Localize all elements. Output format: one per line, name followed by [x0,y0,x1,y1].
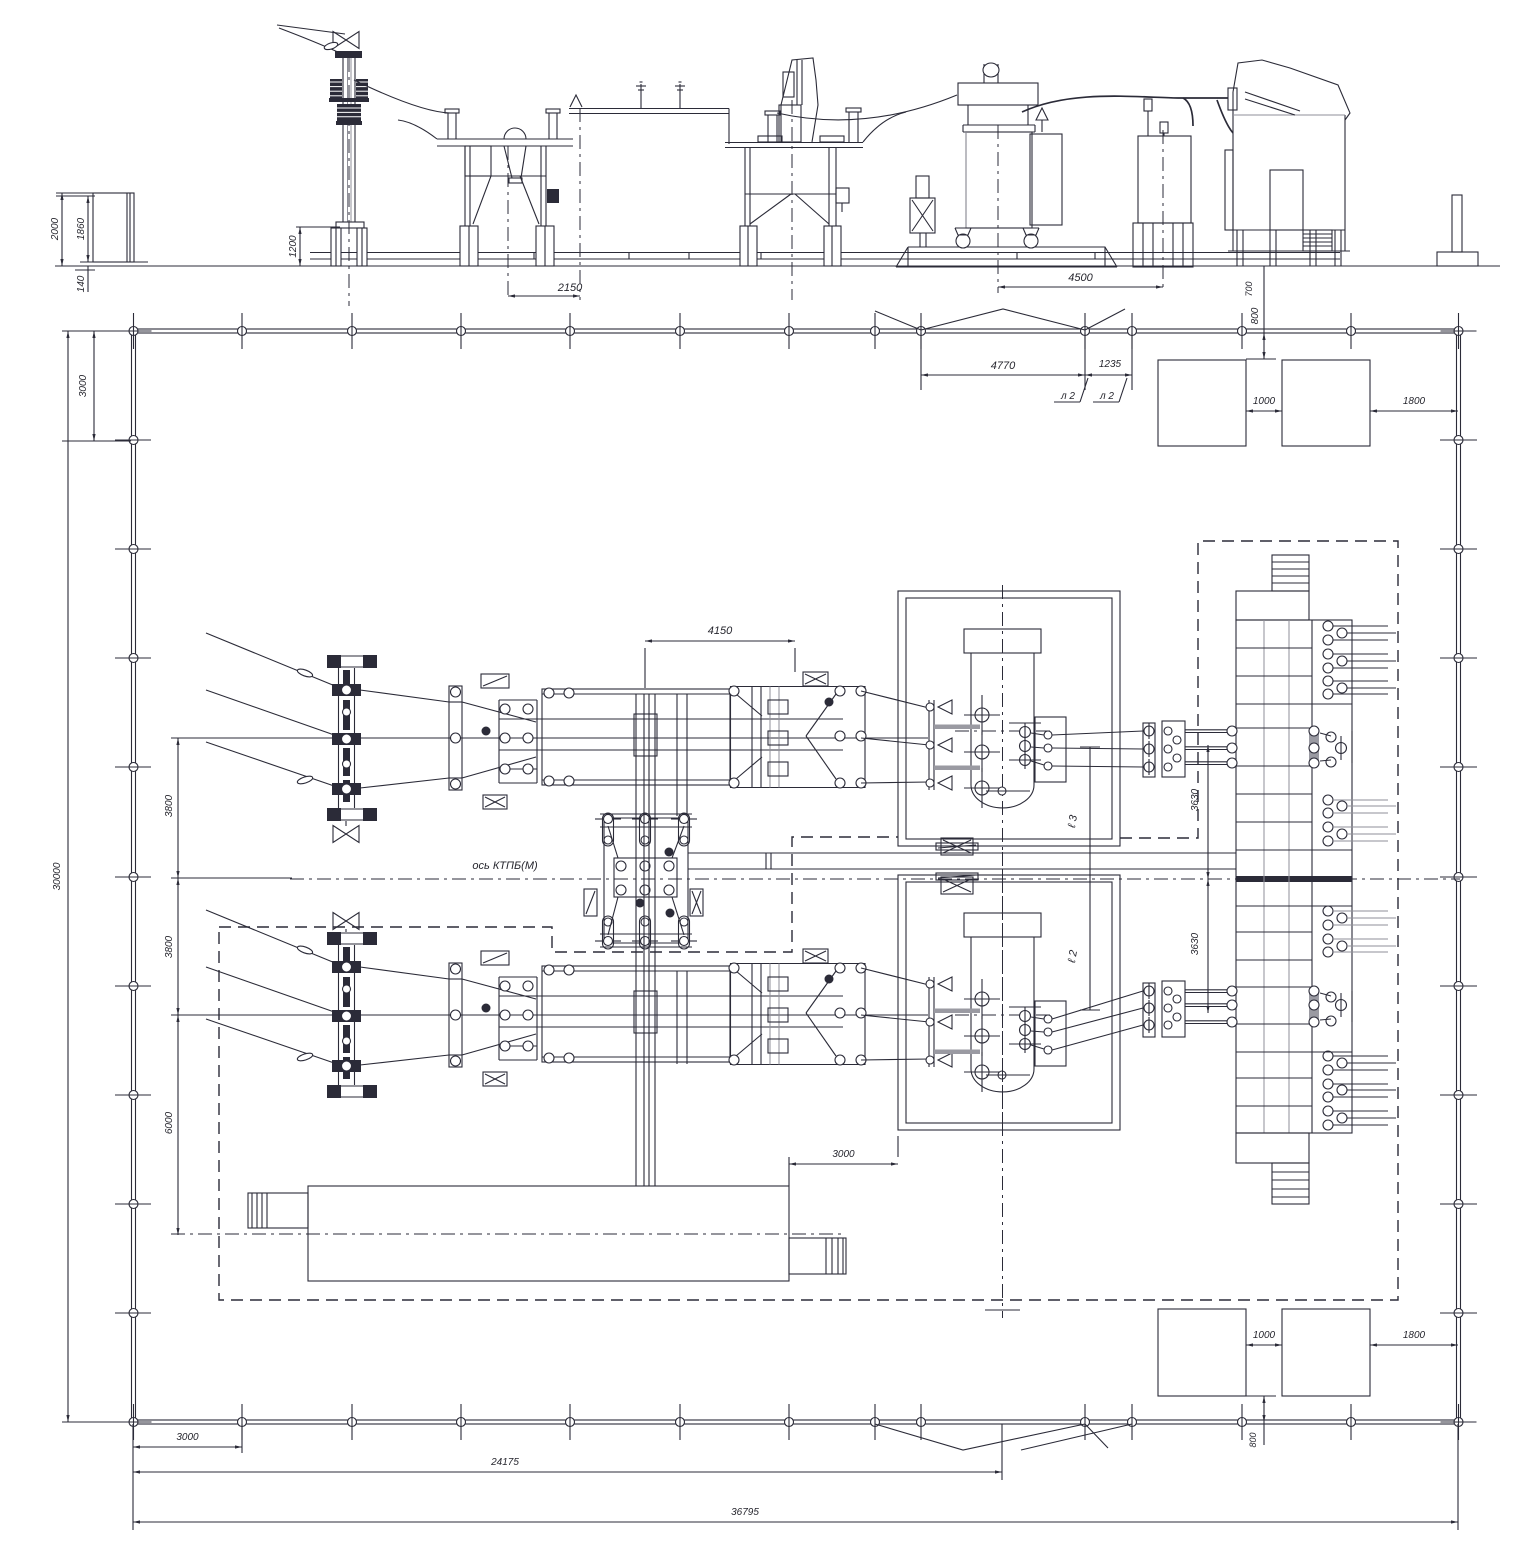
svg-text:800: 800 [1250,307,1261,324]
svg-text:140: 140 [76,275,87,292]
svg-text:2150: 2150 [557,282,583,294]
svg-text:3630: 3630 [1190,932,1201,955]
svg-text:ℓ 3: ℓ 3 [1066,813,1080,829]
svg-text:ℓ 2: ℓ 2 [1066,949,1080,965]
svg-text:1200: 1200 [288,235,299,258]
svg-text:3630: 3630 [1190,788,1201,811]
svg-text:3800: 3800 [164,794,175,817]
svg-text:36795: 36795 [731,1507,759,1518]
svg-text:4500: 4500 [1068,272,1093,284]
svg-text:24175: 24175 [490,1457,519,1468]
svg-text:700: 700 [1244,281,1254,296]
svg-text:6000: 6000 [164,1111,175,1134]
svg-text:3000: 3000 [832,1149,855,1160]
svg-text:4150: 4150 [708,625,733,637]
svg-text:1800: 1800 [1403,396,1426,407]
svg-text:3800: 3800 [164,935,175,958]
svg-text:1000: 1000 [1253,396,1276,407]
svg-text:1800: 1800 [1403,1330,1426,1341]
svg-text:1235: 1235 [1099,359,1122,370]
svg-text:30000: 30000 [52,862,63,890]
svg-text:1000: 1000 [1253,1330,1276,1341]
svg-text:800: 800 [1248,1432,1258,1447]
svg-text:3000: 3000 [176,1432,199,1443]
svg-text:л 2: л 2 [1099,391,1114,402]
svg-text:1860: 1860 [76,217,87,240]
svg-text:2000: 2000 [50,217,61,241]
svg-text:л 2: л 2 [1060,391,1075,402]
svg-text:3000: 3000 [78,374,89,397]
svg-text:ось КТПБ(М): ось КТПБ(М) [472,860,538,872]
svg-text:4770: 4770 [991,360,1016,372]
